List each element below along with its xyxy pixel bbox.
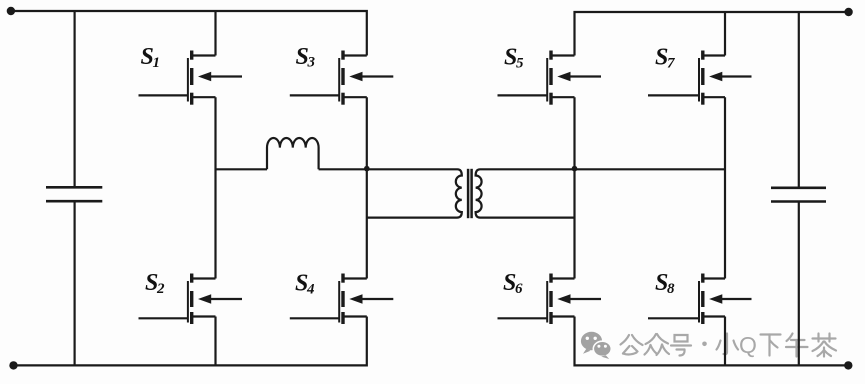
transformer T1 core bars bbox=[467, 169, 470, 218]
svg-text:3: 3 bbox=[307, 55, 316, 71]
svg-text:7: 7 bbox=[667, 55, 675, 71]
node DC- right terminal dot bbox=[844, 361, 852, 369]
wire left capacitor bottom leg bbox=[73, 201, 75, 365]
inductor L bbox=[267, 138, 319, 169]
wire S7 drain vertical bbox=[724, 12, 726, 56]
wire top-left bus into S3 drain bbox=[11, 11, 367, 56]
watermark text wu bbox=[786, 334, 808, 357]
transistor S1 bbox=[139, 51, 243, 105]
wire right capacitor bottom leg bbox=[798, 202, 800, 366]
node DC- left terminal dot bbox=[9, 361, 17, 369]
svg-text:6: 6 bbox=[515, 281, 523, 297]
watermark wechat icon bbox=[581, 332, 611, 359]
svg-text:5: 5 bbox=[516, 55, 524, 71]
watermark text gong bbox=[621, 335, 643, 355]
wire leg C midpoint vertical bbox=[573, 97, 575, 278]
transistor S2 bbox=[139, 274, 243, 325]
wire S1 drain vertical bbox=[214, 11, 216, 56]
node DC+ left terminal dot bbox=[7, 7, 15, 15]
node DC+ right terminal dot bbox=[844, 8, 852, 16]
wire node A to inductor bbox=[216, 168, 268, 170]
svg-text:Q: Q bbox=[739, 332, 757, 358]
svg-text:1: 1 bbox=[153, 55, 161, 71]
transistor S6 bbox=[498, 274, 602, 325]
wire bottom-left bus into S4 source bbox=[14, 317, 367, 366]
wire leg B midpoint vertical bbox=[366, 97, 368, 278]
transistor S7 bbox=[648, 51, 752, 105]
wire S2 source vertical bbox=[214, 317, 216, 366]
wire right capacitor top leg bbox=[798, 12, 800, 188]
transistor S3 bbox=[290, 51, 394, 105]
transistor S5 bbox=[498, 51, 602, 105]
svg-text:4: 4 bbox=[306, 281, 315, 297]
wire top-right bus into S5 drain bbox=[575, 12, 849, 56]
watermark text xiao bbox=[717, 334, 739, 355]
node C junction dot bbox=[572, 166, 578, 172]
wire leg D midpoint vertical bbox=[724, 97, 726, 278]
watermark text xia bbox=[761, 335, 781, 356]
capacitor C2 bbox=[771, 187, 826, 190]
watermark middle dot bbox=[702, 342, 707, 347]
watermark text zhong bbox=[645, 334, 670, 355]
svg-text:2: 2 bbox=[156, 281, 165, 297]
wire S8 source vertical bbox=[724, 317, 726, 366]
capacitor C1 bbox=[46, 186, 102, 189]
watermark text cha bbox=[813, 334, 837, 357]
wire left capacitor top leg bbox=[73, 11, 75, 187]
wire leg A midpoint vertical bbox=[214, 97, 216, 278]
transistor S4 bbox=[290, 274, 394, 325]
wire bottom-right bus into S6 source bbox=[575, 317, 849, 366]
transistor S8 bbox=[648, 274, 752, 325]
node B junction dot bbox=[364, 166, 370, 172]
svg-text:8: 8 bbox=[667, 281, 675, 297]
transformer T1 primary winding bbox=[319, 169, 462, 217]
watermark text hao bbox=[671, 335, 691, 356]
transformer T1 secondary winding bbox=[476, 169, 725, 217]
